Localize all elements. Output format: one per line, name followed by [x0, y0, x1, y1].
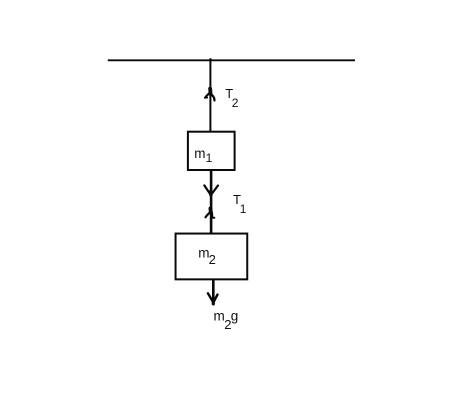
label m1 [194, 146, 212, 165]
arrow m2g down arrowhead (weight) [208, 293, 218, 304]
svg-text:1: 1 [206, 151, 213, 165]
svg-text:g: g [231, 309, 239, 324]
arrow T2 up arrowhead [205, 89, 215, 101]
svg-text:2: 2 [232, 96, 239, 110]
arrow T1 up arrowhead (rope pull on m2) [206, 209, 215, 218]
wire rope segment m1 to m2 [210, 170, 213, 233]
svg-text:m: m [214, 309, 225, 324]
label T1 [233, 192, 247, 216]
svg-text:2: 2 [209, 252, 216, 267]
svg-text:1: 1 [240, 202, 247, 216]
ceiling line [108, 59, 355, 61]
wire rope segment below m2 [212, 280, 215, 300]
arrow down arrowhead (m1 pull on rope) [204, 185, 218, 195]
wire rope segment ceiling to m1 [209, 58, 211, 131]
label m2g [214, 309, 239, 333]
box m1 [188, 132, 235, 170]
label m2 [198, 246, 216, 267]
box m2 [176, 234, 248, 280]
label T2 [225, 86, 239, 110]
svg-text:m: m [194, 146, 205, 161]
